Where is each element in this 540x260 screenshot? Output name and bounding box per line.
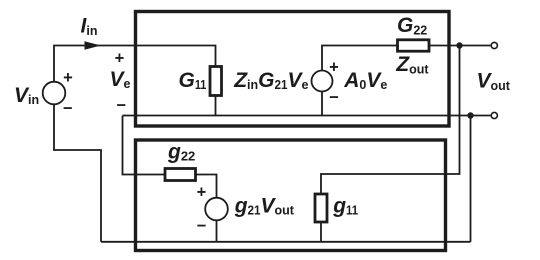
svg-text:+: + (115, 49, 125, 67)
svg-text:A0Ve: A0Ve (343, 69, 387, 92)
svg-text:G11: G11 (179, 69, 207, 92)
svg-text:Iin: Iin (81, 15, 98, 38)
svg-text:g11: g11 (332, 195, 358, 218)
svg-text:Vout: Vout (477, 70, 511, 93)
svg-text:g22: g22 (167, 141, 195, 164)
svg-text:ZinG21Ve: ZinG21Ve (233, 69, 308, 92)
svg-text:+: + (197, 184, 207, 202)
svg-text:−: − (329, 88, 339, 106)
svg-text:g21Vout: g21Vout (234, 195, 295, 218)
svg-text:G22: G22 (397, 14, 427, 37)
svg-text:−: − (116, 97, 126, 115)
svg-text:−: − (197, 217, 207, 235)
svg-text:Ve: Ve (110, 68, 131, 91)
svg-text:+: + (63, 69, 73, 87)
svg-text:Zout: Zout (395, 53, 429, 76)
svg-text:+: + (329, 59, 339, 77)
svg-text:−: − (63, 100, 73, 118)
svg-text:Vin: Vin (14, 84, 39, 107)
